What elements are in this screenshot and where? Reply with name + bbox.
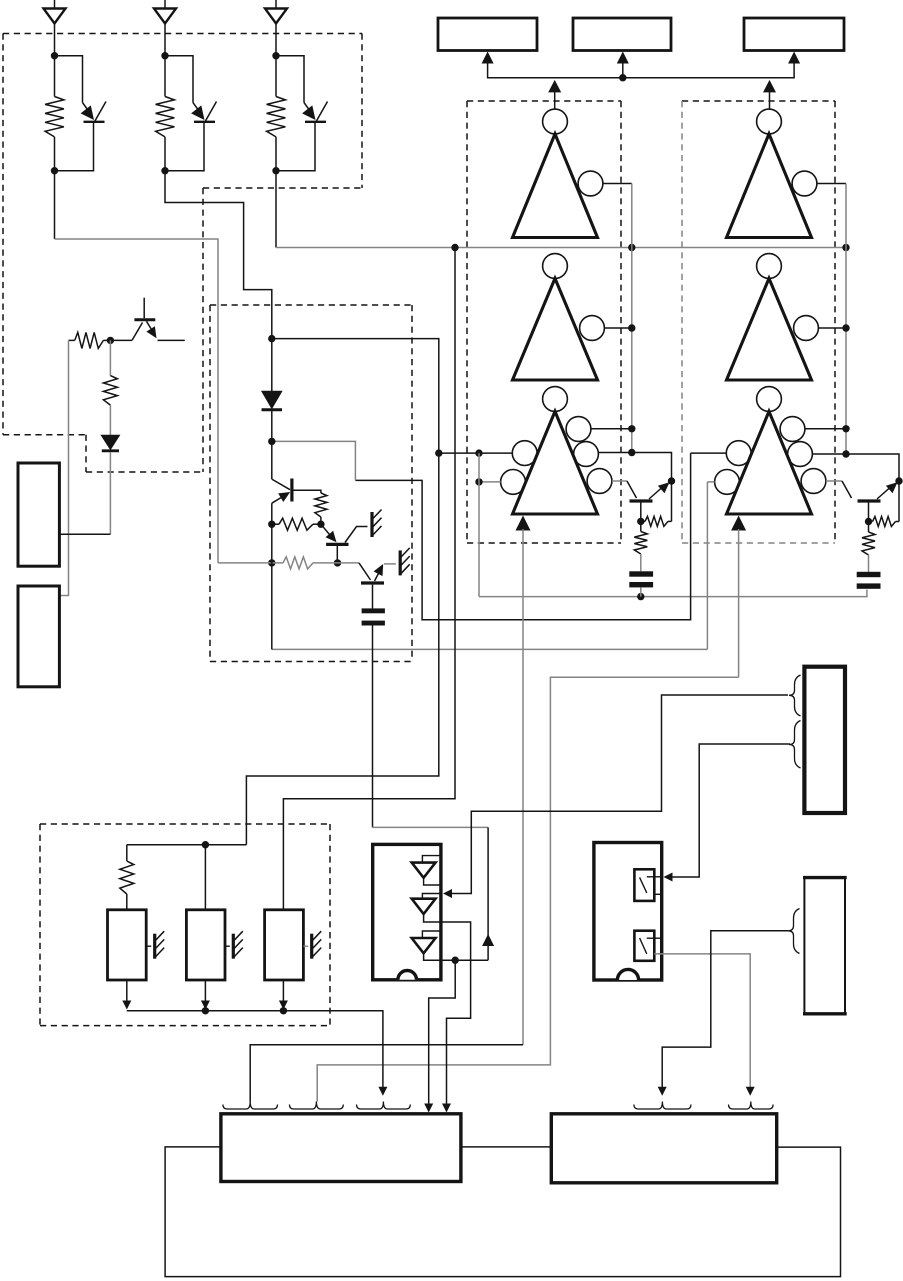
- inverter U1.3 input stub: [422, 931, 440, 938]
- brace IC4 group D: [634, 1102, 691, 1110]
- brace J1 pin group 2: [789, 721, 801, 769]
- transistor Q2 collector: [345, 527, 368, 543]
- surge arrester VR2: [193, 103, 201, 113]
- connector J2 body: [804, 878, 845, 1014]
- dashed box: oscillator cluster: [210, 304, 412, 306]
- wire rail to R14: [126, 845, 128, 861]
- wire D1-top to left amp D: [246, 339, 438, 845]
- arrow into TOP1: [482, 52, 494, 64]
- resistor R2 (branch 2): [156, 97, 175, 137]
- transistor Q4 base bar: [630, 499, 653, 502]
- wire conn2 brace to IC4: [662, 931, 788, 1087]
- node branch 1 top: [51, 52, 58, 59]
- arrow left amp column to bus: [548, 80, 561, 93]
- chassis ground Q3: [399, 550, 402, 575]
- node y562 right: [334, 559, 341, 566]
- resistor R1 (branch 1): [45, 97, 64, 137]
- brace IC4 group E: [729, 1102, 774, 1110]
- chassis stub K3: [303, 945, 308, 947]
- IC IC3 body: [221, 1114, 461, 1182]
- dashed box: antenna input block: [3, 33, 362, 35]
- capacitor C1: [629, 571, 653, 576]
- node x631 y328: [628, 324, 635, 331]
- wire rail to K2: [204, 845, 206, 910]
- wire IC3 left pin to IC4 right pin (feedback loop): [165, 1147, 840, 1277]
- IC U2 body: [594, 843, 662, 981]
- inverter U1.2 output wire: [424, 914, 471, 1105]
- block L1: [18, 463, 59, 566]
- apex circle left column: [543, 254, 568, 279]
- wire amp3R out A: [805, 428, 846, 430]
- apex circle right column: [757, 254, 782, 279]
- wire Q2 below: [336, 546, 338, 563]
- wire C1 to rail: [640, 587, 642, 596]
- wire antenna E2 to node: [164, 56, 166, 97]
- wire SW2 out gray: [654, 954, 750, 1087]
- switch SW1 cell: [634, 869, 654, 901]
- triangle amp left column: [513, 278, 598, 380]
- wire antenna E3 to node: [275, 56, 277, 97]
- node x846 y428: [842, 425, 849, 432]
- antenna E3: [275, 0, 277, 9]
- brace IC3 group C: [357, 1102, 411, 1110]
- wire right D net gray part: [272, 441, 356, 480]
- resistor R3 (branch 3): [267, 97, 286, 137]
- wire C3 down long: [372, 626, 374, 828]
- switch SW2 cell: [634, 931, 654, 961]
- wire R2 lower lead: [164, 137, 166, 171]
- node D1 bottom: [268, 438, 275, 445]
- transistor Q3 collector diag: [359, 563, 371, 580]
- block K2: [186, 910, 225, 980]
- block TOP2: [573, 18, 671, 51]
- wire brace1 to U1.2 input: [452, 695, 789, 894]
- wire Q1 base: [293, 490, 321, 493]
- resistor R7 horizontal: [873, 517, 896, 527]
- wire branch3 down to RF bus: [275, 171, 277, 248]
- IC U1 body: [373, 844, 441, 979]
- chassis stub K1: [146, 945, 151, 947]
- surge arrester VR1: [83, 103, 91, 113]
- arrow right amp column to bus: [763, 80, 776, 93]
- transistor Q1 emitter: [272, 497, 282, 503]
- apex circle left column: [543, 387, 568, 412]
- chassis stub K2: [225, 945, 230, 947]
- circle amp3R in E: [715, 470, 740, 495]
- transistor Q3 emitter: [375, 572, 380, 582]
- node E-line x479: [475, 478, 482, 485]
- resistor R12 horizontal: [75, 332, 104, 348]
- circle amp3L out A: [566, 417, 591, 442]
- node U1.3 out: [452, 957, 459, 964]
- connector J1 body: [804, 667, 845, 813]
- resistor R9 vertical: [315, 493, 327, 517]
- wire amp3L out C: [612, 480, 627, 482]
- wire amp3L in E: [479, 481, 501, 483]
- node bus x455: [451, 244, 458, 251]
- inverter U1.3: [412, 938, 436, 953]
- wire K2 to ground bus: [204, 980, 206, 1001]
- wire left power net: [522, 529, 524, 1045]
- transistor Q5 emitter: [877, 488, 890, 500]
- node Q5 collector out: [895, 477, 902, 484]
- brace IC3 group B: [289, 1102, 343, 1110]
- wire Q4 out to resistor: [671, 481, 673, 521]
- wire amp3R out C: [826, 480, 842, 482]
- wire Q4 below bar: [640, 503, 642, 522]
- wire Q6 emitter out: [158, 339, 185, 341]
- brace J1 pin group 1: [789, 675, 801, 716]
- transistor Q4 collector diag: [627, 481, 637, 498]
- wire right power net: [738, 529, 740, 677]
- circle amp3R out A: [780, 417, 805, 442]
- block L2: [18, 586, 59, 687]
- wire D1 to Q1: [271, 411, 273, 479]
- transistor Q6 emitter: [147, 321, 152, 329]
- wire gray rail y649: [272, 648, 708, 650]
- block TOP1: [438, 18, 537, 51]
- block TOP3: [744, 18, 844, 51]
- node D-line x479: [475, 449, 482, 456]
- surge arrester VR3: [304, 103, 312, 113]
- apex circle right column: [757, 109, 782, 134]
- wire R3 lower lead: [275, 137, 277, 171]
- resistor R13 vertical: [103, 376, 117, 406]
- wire gray cap-bottom rail y596: [479, 590, 867, 597]
- triangle amp right column: [727, 411, 812, 514]
- arrow power left amp: [516, 516, 531, 531]
- wire amp3L in D: [439, 452, 513, 454]
- resistor R10 horizontal: [279, 518, 313, 530]
- node R12 right: [107, 337, 114, 344]
- wire gray vertical x846: [845, 184, 847, 455]
- arrow SW2 out into IC4: [746, 1087, 755, 1096]
- block K3: [265, 910, 304, 980]
- node diode D1 top: [268, 335, 275, 342]
- wire C3 link to U1.3 out: [373, 826, 489, 828]
- circle amp3L out B: [574, 442, 599, 467]
- arrow power right amp: [731, 516, 746, 531]
- circle amp3L in E: [501, 470, 526, 495]
- transistor Q4 emitter: [649, 488, 662, 500]
- wire amp1R out: [817, 183, 846, 185]
- circle amp1L output: [578, 171, 603, 196]
- wire IC3 to IC4: [461, 1146, 551, 1148]
- wire amp3L out A: [591, 428, 632, 430]
- transistor Q5 base bar: [858, 499, 881, 502]
- arrow into U1.2 input: [443, 889, 452, 898]
- wire bus down to rect3: [283, 248, 455, 910]
- triangle amp right column: [727, 278, 812, 380]
- node branch 3 top: [272, 52, 279, 59]
- transistor Q6 collector stub: [143, 298, 145, 319]
- triangle amp left column: [513, 411, 598, 514]
- transistor Q1 collector diag: [272, 479, 290, 490]
- transistor Q6 bar: [134, 318, 155, 321]
- dashed box: left amplifier column: [467, 100, 621, 102]
- node Q5 resistor left: [865, 518, 872, 525]
- wire Q5 out to resistor: [898, 481, 900, 522]
- wire amp3L out B: [598, 453, 671, 482]
- wire R1 lower lead: [54, 137, 56, 171]
- node Q4 resistor left: [637, 518, 644, 525]
- resistor R14 vertical: [120, 861, 134, 894]
- arrow conn2 into IC4: [658, 1087, 667, 1096]
- wire branch2 to cluster: [165, 171, 272, 339]
- node bus x846: [842, 244, 849, 251]
- inverter U1.1 input stub: [422, 856, 440, 863]
- wire amp3R in E: [707, 481, 714, 483]
- inverter U1.3 output wire: [424, 953, 489, 960]
- circle amp3R in D: [726, 441, 751, 466]
- wire antenna E1 to node: [54, 56, 56, 97]
- wire to Q3: [338, 562, 360, 564]
- wire RF bus: [276, 247, 846, 249]
- wire R14 to K1: [126, 894, 128, 910]
- inverter U1.1 output stub: [424, 878, 440, 885]
- IC U2 notch: [617, 969, 638, 980]
- transistor Q1 base bar: [290, 479, 293, 502]
- wire Q3 to C3: [372, 585, 374, 609]
- wire amp3R out B: [812, 454, 899, 481]
- IC IC4 body: [551, 1114, 776, 1183]
- antenna E2: [164, 0, 166, 9]
- transistor Q3 base bar: [361, 581, 384, 584]
- surge arrester VR2 branch wire: [165, 56, 193, 103]
- inverter U1.1: [412, 863, 436, 878]
- node ground bus K3: [280, 1007, 287, 1014]
- capacitor C3: [362, 608, 385, 613]
- apex circle right column: [757, 387, 782, 412]
- node Q4 collector out: [668, 477, 675, 484]
- chassis ground Q2: [370, 512, 373, 537]
- triangle amp right column: [727, 134, 812, 238]
- node y562 left: [268, 559, 275, 566]
- dashed box: right amplifier column: [682, 100, 835, 102]
- diode D2: [102, 435, 120, 449]
- circle amp2R output: [794, 316, 819, 341]
- wire R6 to cap: [640, 554, 642, 571]
- inverter U1.2 input stub: [422, 894, 440, 899]
- wire Q5 below bar: [868, 503, 870, 522]
- node bus x631: [628, 244, 635, 251]
- wire R13 feed: [109, 340, 111, 375]
- capacitor C2: [857, 572, 881, 577]
- antenna E1: [54, 0, 56, 9]
- wire R9 to node: [320, 517, 322, 524]
- node ground bus K2: [202, 1007, 209, 1014]
- resistor R8 vertical: [862, 532, 875, 555]
- wire right D net routing: [355, 453, 690, 620]
- wire U1.3 branch to IC3: [429, 960, 456, 1105]
- node branch 2 bottom: [161, 167, 168, 174]
- surge arrester VR1 branch wire: [55, 56, 83, 103]
- wire R12 left to boxL2: [59, 340, 68, 595]
- wire branch1 tail: [54, 171, 56, 239]
- inverter U1.2: [412, 899, 436, 914]
- triangle amp left column: [513, 134, 598, 238]
- transistor Q6 base diag: [132, 323, 143, 341]
- node x631 y428: [628, 425, 635, 432]
- wire amp2R out: [818, 327, 846, 329]
- wire Q3 emitter to chassis: [384, 563, 396, 565]
- wire amp3R in D: [691, 452, 727, 454]
- transistor Q2 base bar: [326, 543, 348, 546]
- wire amp1L out: [603, 183, 632, 185]
- node top bus: [619, 74, 626, 81]
- node R10 left: [268, 521, 275, 528]
- surge arrester VR3 branch wire: [276, 56, 304, 103]
- node branch 2 top: [161, 52, 168, 59]
- wire D2 to boxL1: [109, 452, 111, 534]
- node D-line x439: [435, 449, 442, 456]
- node x631 y452: [628, 449, 635, 456]
- wire gray vertical x631: [631, 184, 633, 453]
- node y844 rect2 tap: [202, 841, 209, 848]
- circle amp1R output: [792, 171, 817, 196]
- wire ground bus: [127, 1011, 383, 1087]
- wire D1 top feed: [271, 339, 273, 392]
- brace J2 pin group: [788, 909, 800, 954]
- wire conn1 brace2 to SW1: [672, 744, 790, 877]
- wire gray vertical x707: [706, 482, 708, 650]
- transistor Q5 collector diag: [842, 481, 852, 498]
- arrow U1.2 out into IC3: [442, 1104, 451, 1113]
- circle amp3R out B: [788, 442, 813, 467]
- block K1: [108, 910, 147, 980]
- wire gray y562 rail: [218, 562, 283, 564]
- brace IC3 group A: [223, 1102, 278, 1110]
- circle amp3R out C: [801, 469, 826, 494]
- arrow into TOP2: [617, 52, 629, 64]
- wire amp2L out: [604, 327, 631, 329]
- diode D1: [262, 391, 282, 408]
- node cap rail: [637, 593, 644, 600]
- node R10 right: [317, 521, 324, 528]
- wire Q1 emitter down: [271, 503, 273, 524]
- apex circle left column: [543, 109, 568, 134]
- arrow ground bus into IC3: [378, 1087, 387, 1096]
- wire Q1 node down: [271, 524, 273, 649]
- IC U1 notch: [398, 971, 417, 980]
- resistor R11 horizontal: [283, 557, 313, 569]
- circle amp2L output: [580, 316, 605, 341]
- wire top bus: [488, 63, 794, 78]
- wire K1 to ground bus: [126, 980, 128, 1001]
- wire R8 to cap: [868, 555, 870, 572]
- resistor R5 horizontal: [645, 516, 668, 526]
- circle amp3L in D: [512, 441, 537, 466]
- node branch 1 bottom: [51, 167, 58, 174]
- arrow into SW1: [664, 873, 673, 882]
- wire gray vertical x479: [478, 453, 480, 596]
- wire K3 to ground bus: [282, 980, 284, 1001]
- node branch 3 bottom: [272, 167, 279, 174]
- arrow up on x488: [482, 934, 494, 946]
- wire R13 to D2: [109, 405, 111, 435]
- wire y844 rail: [127, 844, 247, 846]
- arrow into TOP3: [788, 52, 800, 64]
- arrow U1.3 branch into IC3: [424, 1104, 433, 1113]
- node x846 y454: [842, 450, 849, 457]
- node x846 y328: [842, 324, 849, 331]
- wire R12 to Q6: [110, 339, 132, 341]
- circle amp3L out C: [587, 469, 612, 494]
- resistor R6 vertical: [634, 532, 647, 555]
- transistor Q2 emitter diag: [321, 524, 330, 534]
- dashed box: driver block: [40, 823, 330, 825]
